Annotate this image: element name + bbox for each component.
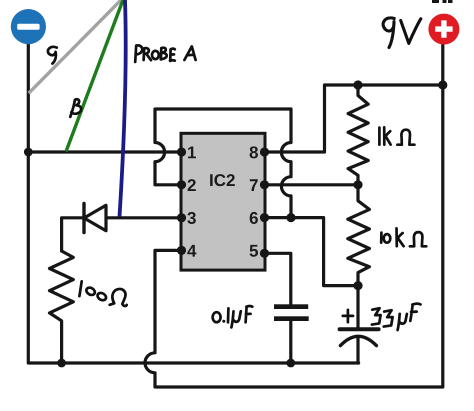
- pin 8 dot: [260, 147, 269, 156]
- probe lead A (dark blue): [120, 0, 126, 217]
- junction: 10k bottom / 33uF: [353, 281, 362, 290]
- wire: pin 5 down to 0.1uF capacitor: [265, 253, 291, 304]
- pin 6 dot: [260, 213, 269, 222]
- capacitor C2 33uF top plate: [340, 327, 379, 331]
- wire: pin 7 to resistor divider junction: [265, 183, 358, 186]
- pin 2 dot: [177, 180, 186, 189]
- capacitor C2 33uF bottom lead: [356, 338, 359, 363]
- pin number 2: [188, 179, 196, 191]
- junction: ground rail / 100 ohm: [57, 359, 66, 368]
- label 1k ohm: [378, 128, 381, 145]
- label PROBE A: [135, 45, 142, 62]
- label 0.1uF: [213, 312, 221, 322]
- capacitor C1 0.1uF bottom plate: [274, 316, 309, 321]
- label G: [48, 47, 57, 64]
- capacitor C1 0.1uF top plate: [274, 304, 308, 309]
- resistor R2 10k ohm: [348, 185, 370, 286]
- battery positive terminal: [428, 14, 459, 45]
- IC2 label: [210, 174, 235, 186]
- label 100 ohm (tilted): [79, 281, 81, 296]
- wire: pin 8 up to +9V rail: [265, 85, 443, 152]
- resistor R3 100 ohm: [50, 251, 74, 363]
- probe lead G (gray): [29, 0, 121, 93]
- label 10k ohm: [380, 233, 383, 243]
- pin 1 dot: [177, 147, 186, 156]
- diode D1 cathode bar: [82, 204, 85, 233]
- wire: pin 3 to diode: [106, 216, 181, 219]
- wire: negative rail (left) and ground rail along bottom: [28, 44, 358, 364]
- pin 3 dot: [177, 213, 186, 222]
- diode D1 triangle: [84, 205, 106, 230]
- IC2 body: [181, 133, 265, 270]
- resistor R1 1k ohm: [348, 85, 368, 183]
- pin 4 dot: [177, 246, 186, 255]
- battery negative terminal: [11, 9, 46, 44]
- label B: [70, 99, 81, 117]
- wire: pin 4 down, hop over ground rail, along bottom to +9V rail: [145, 45, 443, 388]
- junction: 1k top: [353, 80, 362, 89]
- pin number 1: [188, 147, 196, 159]
- pin number 5: [250, 245, 258, 257]
- capacitor C2 33uF top lead: [356, 286, 359, 330]
- wire: pin2-to-pin6 loop over the top of IC2 (with hops): [155, 109, 291, 218]
- pin number 6: [250, 212, 258, 224]
- wire: diode anode side to 100-ohm resistor: [62, 218, 84, 251]
- pin number 3: [187, 212, 195, 224]
- junction: negative rail / pin1 wire: [24, 148, 33, 157]
- junction: ground rail / 0.1uF: [286, 359, 295, 368]
- pin 7 dot: [260, 180, 269, 189]
- wire: 0.1uF bottom lead to ground rail: [289, 321, 292, 363]
- junction: pin6 node: [286, 213, 295, 222]
- capacitor C2 33uF curved bottom plate: [340, 336, 376, 345]
- pin number 7: [250, 179, 258, 191]
- pin number 8: [250, 146, 258, 158]
- label +33uF: [343, 310, 353, 322]
- probe lead B (green): [66, 0, 123, 152]
- label 9V: [383, 18, 394, 48]
- junction: 1k/10k/pin7: [353, 180, 362, 189]
- pin number 4: [187, 245, 196, 257]
- wire: pin 6 stub and branch to 10k bottom: [265, 218, 358, 286]
- cropped glyphs at top edge: [432, 0, 453, 3]
- junction: top wire / +9V rail: [438, 80, 447, 89]
- wire: pin 1 to negative rail: [28, 150, 181, 153]
- pin 5 dot: [260, 249, 269, 258]
